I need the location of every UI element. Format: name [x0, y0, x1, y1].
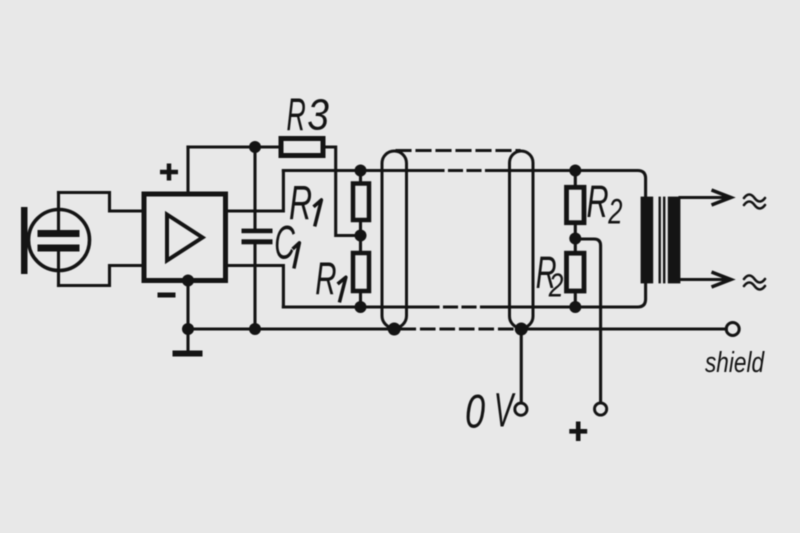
svg-text:2: 2	[548, 268, 564, 304]
svg-text:R: R	[587, 177, 609, 227]
svg-text:0: 0	[465, 385, 485, 438]
svg-text:V: V	[494, 384, 516, 437]
svg-text:C: C	[274, 217, 295, 269]
svg-text:shield: shield	[705, 345, 765, 378]
svg-text:R: R	[287, 89, 306, 140]
svg-text:R: R	[315, 254, 336, 305]
svg-text:3: 3	[307, 89, 329, 139]
svg-text:2: 2	[607, 193, 622, 232]
